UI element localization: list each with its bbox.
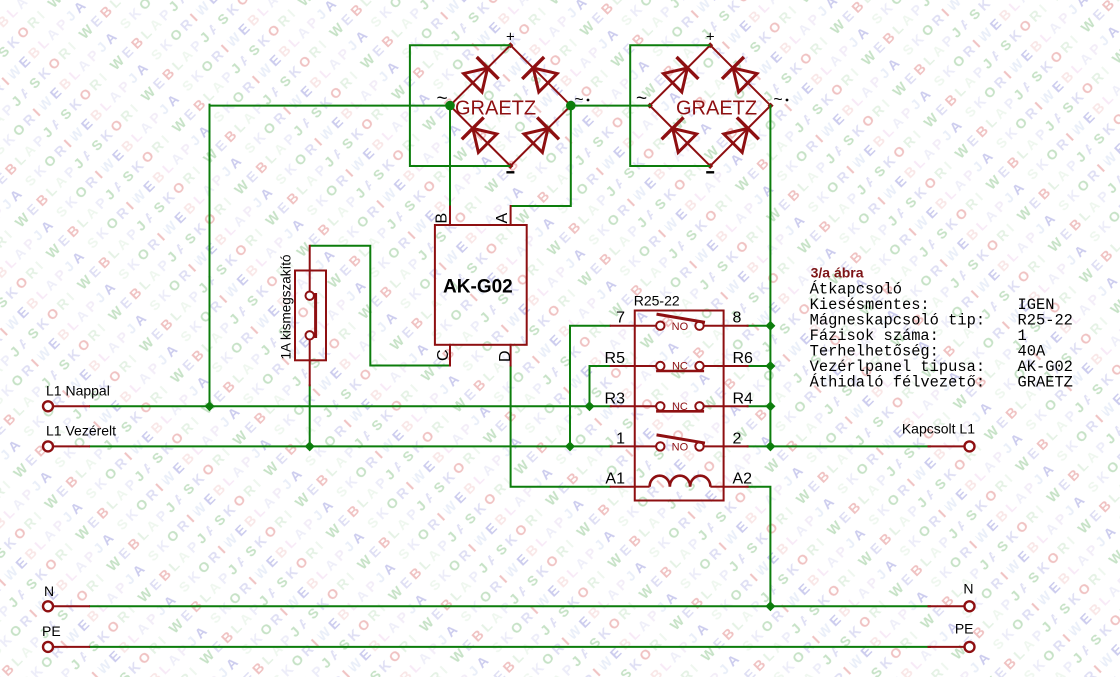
svg-text:NO: NO (672, 442, 689, 454)
relay contact NC pins R3-R4 (635, 401, 724, 413)
svg-text:+: + (706, 29, 715, 46)
terminal Kapcsolt L1 (928, 441, 975, 451)
wire bridge G1 ~ down to pin B (449, 106, 451, 207)
diode G1 top-left (464, 57, 499, 92)
wire L1 Vezerelt rail (90, 445, 611, 447)
diode G1 bottom-left (462, 117, 497, 152)
pin A1 stub (K1) (611, 486, 635, 488)
svg-text:+: + (506, 29, 515, 46)
breaker F1 bottom pin (309, 340, 311, 386)
pin B stub (U1) (449, 207, 451, 226)
pin A2 stub (K1) (724, 486, 748, 488)
svg-text:R25-22: R25-22 (634, 293, 680, 309)
svg-text:8: 8 (733, 310, 742, 327)
terminal PE right (928, 642, 975, 652)
bridge G2 - terminal label (706, 171, 714, 173)
bridge G2 ~ right label (773, 92, 788, 109)
bridge G1 ~ right label (574, 92, 589, 109)
terminal L1 Nappal (43, 401, 90, 411)
junction L1 Nappal / left vertical (205, 401, 215, 411)
specification table (810, 280, 1073, 391)
circuit breaker F1 body (295, 271, 326, 361)
junction right column / pin R4 (765, 401, 775, 411)
svg-text:GRAETZ: GRAETZ (455, 98, 536, 120)
diode G1 top-right (522, 57, 557, 92)
terminal PE left (43, 642, 90, 652)
pin 7 stub (K1) (611, 325, 635, 327)
svg-text:A: A (494, 213, 511, 224)
svg-text:2: 2 (733, 430, 742, 447)
junction right column / pin 8 (765, 321, 775, 331)
wire breaker F1 bottom to L1 Vezerelt rail (309, 385, 311, 446)
junction N rail / pin A2 (765, 601, 775, 611)
pin R3 stub (K1) (611, 405, 635, 407)
svg-text:1: 1 (616, 430, 625, 447)
bridge G1 terminals (447, 42, 574, 169)
wire pin 2 to Kapcsolt L1 terminal (748, 445, 930, 447)
wire bridge G1 ~ right down to pin A (511, 106, 571, 206)
junction L1 Vezerelt / breaker F1 (305, 441, 315, 451)
relay contact NC pins R5-R6 (635, 361, 724, 373)
svg-text:R5: R5 (605, 350, 626, 367)
svg-text:NC: NC (672, 361, 688, 373)
junction at bridge G1 ~ right (566, 101, 576, 111)
diode G2 top-left (663, 57, 698, 92)
diode G1 bottom-right (524, 117, 559, 152)
svg-text:AK-G02: AK-G02 (443, 277, 513, 298)
pin C stub (U1) (449, 345, 451, 366)
svg-text:NO: NO (672, 321, 689, 333)
pin D stub (U1) (510, 345, 512, 366)
svg-text:N: N (963, 581, 973, 597)
diode G2 top-right (722, 57, 757, 92)
pin 2 stub (K1) (724, 445, 748, 447)
pin A stub (U1) (510, 206, 512, 225)
terminal N left (43, 601, 90, 611)
relay K1 body (635, 311, 724, 501)
wire N rail (90, 605, 930, 607)
bridge G1 - terminal label (506, 171, 514, 173)
svg-text:GRAETZ: GRAETZ (1018, 373, 1073, 391)
svg-text:NC: NC (672, 401, 688, 413)
svg-text:R4: R4 (733, 390, 754, 407)
svg-text:1A kismegszakító: 1A kismegszakító (278, 254, 293, 359)
wire top-left horizontal to bridge G1 ~ (210, 105, 451, 107)
relay contact NO pins 7-8 (635, 314, 724, 333)
wire coil pin A2 down to N rail (748, 487, 771, 607)
wire left vertical down to L1 Nappal rail (209, 105, 211, 407)
control module U1 AK-G02 body (435, 225, 527, 345)
svg-text:Kapcsolt L1: Kapcsolt L1 (902, 421, 975, 437)
rectifier bridge G2 outline (650, 45, 771, 166)
wire bridge G1 +/- bypass loop (410, 45, 511, 166)
junction right column / pin 2 (765, 441, 775, 451)
svg-text:B: B (433, 213, 450, 224)
pin 1 stub (K1) (611, 445, 635, 447)
breaker F1 lower contact circle (306, 331, 314, 339)
svg-text:GRAETZ: GRAETZ (676, 98, 757, 120)
wire bridge G1 ~ to bridge G2 ~ (571, 105, 650, 107)
breaker F1 top pin (309, 246, 311, 292)
wire pin 8 to right column (748, 325, 771, 327)
breaker F1 lever (314, 295, 317, 337)
wire pin C to breaker F1 top (310, 246, 450, 366)
relay contact NO pins 1-2 (635, 435, 724, 454)
wire bridge G2 +/- bypass loop (630, 45, 710, 166)
wire L1 Nappal rail (90, 405, 611, 407)
svg-text:A2: A2 (733, 471, 753, 488)
breaker F1 upper contact circle (306, 292, 314, 300)
svg-text:L1 Vezérelt: L1 Vezérelt (46, 423, 116, 439)
svg-text:N: N (44, 583, 54, 599)
junction at bridge G1 ~ left (445, 101, 455, 111)
svg-text:7: 7 (616, 310, 625, 327)
wire pin R6 to right column (748, 365, 771, 367)
relay coil A1-A2 (635, 476, 724, 487)
pin R5 stub (K1) (611, 365, 635, 367)
svg-text:L1 Nappal: L1 Nappal (46, 383, 110, 399)
junction L1 Vezerelt / pin 7 (565, 441, 575, 451)
junction right column / pin R6 (765, 361, 775, 371)
svg-text:3/a ábra: 3/a ábra (811, 265, 864, 281)
svg-text:~: ~ (773, 92, 782, 109)
pin R6 stub (K1) (724, 365, 748, 367)
svg-text:C: C (435, 349, 452, 361)
diode G2 bottom-right (724, 117, 759, 152)
wire bridge G2 ~ down right column to pin 2 node (769, 106, 771, 447)
wire PE rail (90, 646, 930, 648)
svg-text:R6: R6 (733, 350, 754, 367)
pin 8 stub (K1) (724, 325, 748, 327)
svg-text:Áthidaló félvezető:: Áthidaló félvezető: (810, 373, 985, 391)
wire pin R4 to right column (748, 405, 771, 407)
wire pin D down to coil pin A1 (511, 366, 611, 487)
svg-text:PE: PE (955, 621, 974, 637)
pin R4 stub (K1) (724, 405, 748, 407)
terminal L1 Vezerelt (43, 441, 90, 451)
diode G2 bottom-left (662, 117, 697, 152)
svg-text:PE: PE (42, 623, 61, 639)
bridge G2 terminals (647, 42, 774, 169)
svg-text:D: D (497, 350, 514, 362)
wire pin R5 to L1 Nappal rail (590, 366, 611, 406)
wire pin 7 to L1 Vezerelt rail (570, 326, 611, 447)
terminal N right (928, 601, 975, 611)
junction L1 Nappal / pin R5 (585, 401, 595, 411)
rectifier bridge G1 outline (450, 45, 571, 166)
svg-text:R3: R3 (605, 390, 626, 407)
svg-text:A1: A1 (605, 471, 625, 488)
